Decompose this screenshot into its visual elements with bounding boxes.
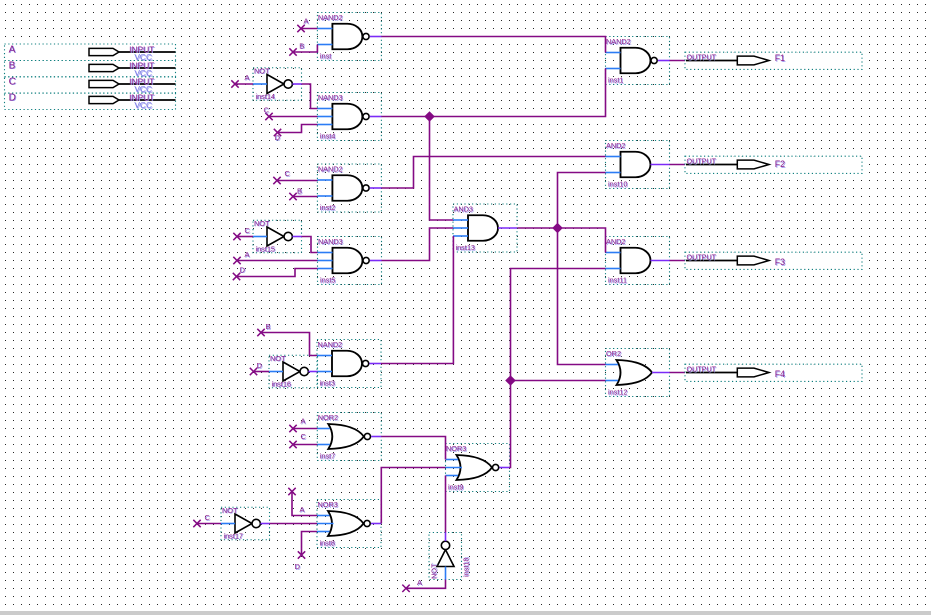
node junction (557.5,228) xyxy=(552,223,563,234)
svg-text:NAND2: NAND2 xyxy=(318,165,343,174)
output pin F3 (OUTPUT symbol) xyxy=(685,252,862,269)
svg-text:inst8: inst8 xyxy=(320,539,335,548)
wire: inst3 output to inst13 input 3 xyxy=(381,236,453,364)
NAND gate inst1 (NAND2) xyxy=(606,37,670,86)
svg-text:D: D xyxy=(275,133,281,142)
pin stub A xyxy=(402,578,445,592)
svg-text:NAND3: NAND3 xyxy=(318,237,343,246)
svg-text:NAND3: NAND3 xyxy=(318,93,343,102)
AND gate inst13 (AND3) xyxy=(453,204,517,253)
svg-text:C: C xyxy=(245,226,251,235)
NAND gate inst4 (NAND3) xyxy=(317,93,381,142)
svg-text:A: A xyxy=(301,417,306,426)
svg-text:inst7: inst7 xyxy=(320,452,335,461)
svg-text:inst12: inst12 xyxy=(608,388,627,397)
pin stub A xyxy=(233,250,317,264)
NAND gate inst3 (NAND2) xyxy=(317,340,381,389)
pin stub C xyxy=(233,226,253,240)
wire: inst10 output to output pin F2 xyxy=(670,164,687,166)
pin stub B xyxy=(289,187,317,201)
svg-text:C: C xyxy=(285,169,291,178)
svg-text:inst17: inst17 xyxy=(224,531,243,540)
svg-text:inst4: inst4 xyxy=(320,132,335,141)
wire: inst14 output to inst4 input 1 xyxy=(302,84,318,109)
svg-text:D: D xyxy=(240,265,246,274)
pin stub A xyxy=(288,488,317,516)
wire: inst18 output up to inst9 input 3 xyxy=(445,476,447,533)
pin stub A xyxy=(231,73,253,88)
svg-text:NAND2: NAND2 xyxy=(606,37,631,46)
svg-text:B: B xyxy=(297,187,302,196)
svg-text:inst15: inst15 xyxy=(256,244,275,253)
pin stub C xyxy=(193,513,221,527)
svg-text:F4: F4 xyxy=(775,369,785,379)
pin stub C xyxy=(273,169,317,184)
AND gate inst11 (AND2) xyxy=(606,237,670,286)
wire: branch junction (557.5,228) down to inst12 input 1 xyxy=(558,228,606,365)
wire: inst12 output to output pin F4 xyxy=(670,372,687,374)
svg-text:NOR2: NOR2 xyxy=(318,413,338,422)
svg-text:NOT: NOT xyxy=(430,563,439,579)
svg-text:NOR3: NOR3 xyxy=(318,500,338,509)
AND gate inst10 (AND2) xyxy=(606,141,670,190)
NAND gate inst2 (NAND2) xyxy=(317,164,381,213)
wire: inst15 output to inst5 input 1 xyxy=(302,237,318,253)
svg-text:inst5: inst5 xyxy=(320,276,335,285)
NOR gate inst8 (NOR3) xyxy=(317,500,381,549)
svg-text:AND2: AND2 xyxy=(606,237,625,246)
NOT gate inst15 xyxy=(253,219,302,254)
pin stub D xyxy=(274,125,318,143)
svg-text:A: A xyxy=(245,73,250,82)
NOR gate inst7 (NOR2) xyxy=(317,413,381,462)
input pin D (INPUT VCC symbol) xyxy=(5,92,176,111)
svg-text:C: C xyxy=(264,106,270,115)
node junction (510.5,380.5) xyxy=(505,375,516,386)
svg-text:inst10: inst10 xyxy=(608,180,627,189)
wire: inst7 output to inst9 input 1 xyxy=(381,437,445,460)
svg-text:B: B xyxy=(299,41,304,50)
pin stub B xyxy=(289,41,317,55)
svg-text:A: A xyxy=(304,17,309,26)
pin stub D xyxy=(233,265,318,280)
wire: inst11 output to output pin F3 xyxy=(670,260,687,262)
svg-text:inst18: inst18 xyxy=(462,558,471,577)
input pin A (INPUT VCC symbol) xyxy=(5,44,176,63)
svg-text:NOT: NOT xyxy=(254,66,270,75)
svg-text:OUTPUT: OUTPUT xyxy=(687,53,717,62)
pin stub C xyxy=(289,432,317,448)
output pin F4 (OUTPUT symbol) xyxy=(685,364,862,381)
svg-text:D: D xyxy=(257,361,263,370)
output pin F1 (OUTPUT symbol) xyxy=(685,52,862,69)
svg-text:OUTPUT: OUTPUT xyxy=(687,157,717,166)
pin stub D xyxy=(250,361,269,375)
wire: branch junction (557.5,228) up to inst10 input 2 xyxy=(558,173,606,229)
svg-text:NOR3: NOR3 xyxy=(446,444,466,453)
wire: inst5 output to inst13 input 2 xyxy=(382,228,454,261)
NOT gate inst17 xyxy=(221,506,270,541)
svg-text:OR2: OR2 xyxy=(606,349,621,358)
pin stub D xyxy=(295,532,318,572)
svg-text:A: A xyxy=(245,250,250,259)
input pin C (INPUT VCC symbol) xyxy=(5,76,176,95)
svg-text:inst1: inst1 xyxy=(608,76,623,85)
wire: inst13 output to inst11 input 1 xyxy=(517,228,605,253)
wire: inst4 output to inst1 input 2 xyxy=(381,69,605,117)
wire: inst output to inst1 input 1 xyxy=(381,37,605,53)
svg-text:inst: inst xyxy=(320,52,331,61)
svg-text:C: C xyxy=(205,513,211,522)
svg-text:C: C xyxy=(9,76,16,87)
svg-text:B: B xyxy=(9,60,16,71)
input pin B (INPUT VCC symbol) xyxy=(5,60,176,79)
pin stub B xyxy=(257,322,317,356)
pin stub A xyxy=(297,17,317,33)
svg-text:F1: F1 xyxy=(775,53,785,63)
svg-text:NOT: NOT xyxy=(270,354,286,363)
NOR gate inst9 (NOR3) xyxy=(446,444,510,493)
horizontal scrollbar track at bottom xyxy=(0,611,931,615)
svg-text:AND2: AND2 xyxy=(606,141,625,150)
svg-text:NOT: NOT xyxy=(254,219,270,228)
svg-text:D: D xyxy=(295,562,301,571)
svg-text:NOT: NOT xyxy=(222,506,238,515)
svg-text:inst9: inst9 xyxy=(448,483,463,492)
svg-text:F2: F2 xyxy=(775,159,785,169)
wire: branch junction (510.5,380.5) to inst12 input 2 xyxy=(511,380,606,382)
svg-text:A: A xyxy=(417,578,422,587)
svg-text:inst2: inst2 xyxy=(320,203,335,212)
svg-text:inst16: inst16 xyxy=(272,379,291,388)
svg-text:F3: F3 xyxy=(775,257,785,267)
svg-text:inst14: inst14 xyxy=(256,92,275,101)
output pin F2 (OUTPUT symbol) xyxy=(685,156,862,173)
NOT gate inst16 xyxy=(269,354,318,389)
wire: inst17 output to inst8 input 2 xyxy=(270,523,318,525)
NAND gate inst (NAND2) xyxy=(317,13,381,62)
svg-text:inst13: inst13 xyxy=(456,243,475,252)
pin stub C xyxy=(264,106,318,121)
node junction (429.5,116.5) xyxy=(424,111,435,122)
svg-text:NAND2: NAND2 xyxy=(318,13,343,22)
wire: inst9 output up to inst11 input 2 xyxy=(510,269,606,468)
pin stub A xyxy=(289,417,317,433)
svg-text:AND3: AND3 xyxy=(454,205,473,214)
svg-text:VCC: VCC xyxy=(134,100,152,110)
svg-text:OUTPUT: OUTPUT xyxy=(687,253,717,262)
OR gate inst12 (OR2) xyxy=(606,349,670,398)
wire: inst1 output to output pin F1 xyxy=(670,60,687,62)
svg-text:C: C xyxy=(301,432,307,441)
wire: inst8 output to inst9 input 2 xyxy=(381,468,445,524)
svg-text:inst3: inst3 xyxy=(320,379,335,388)
svg-text:inst11: inst11 xyxy=(608,276,627,285)
svg-text:B: B xyxy=(266,322,271,331)
svg-text:D: D xyxy=(9,92,16,103)
svg-text:A: A xyxy=(300,505,305,514)
svg-text:OUTPUT: OUTPUT xyxy=(687,365,717,374)
NOT gate inst18 (vertical) xyxy=(429,533,471,580)
wire: branch from node at (429.5,116.5) down to inst13 input 1 xyxy=(430,117,454,221)
wire: inst2 output to inst10 input 1 xyxy=(381,157,605,189)
svg-text:NAND2: NAND2 xyxy=(318,340,343,349)
NAND gate inst5 (NAND3) xyxy=(318,237,382,286)
svg-text:A: A xyxy=(9,44,16,55)
NOT gate inst14 xyxy=(253,66,302,101)
